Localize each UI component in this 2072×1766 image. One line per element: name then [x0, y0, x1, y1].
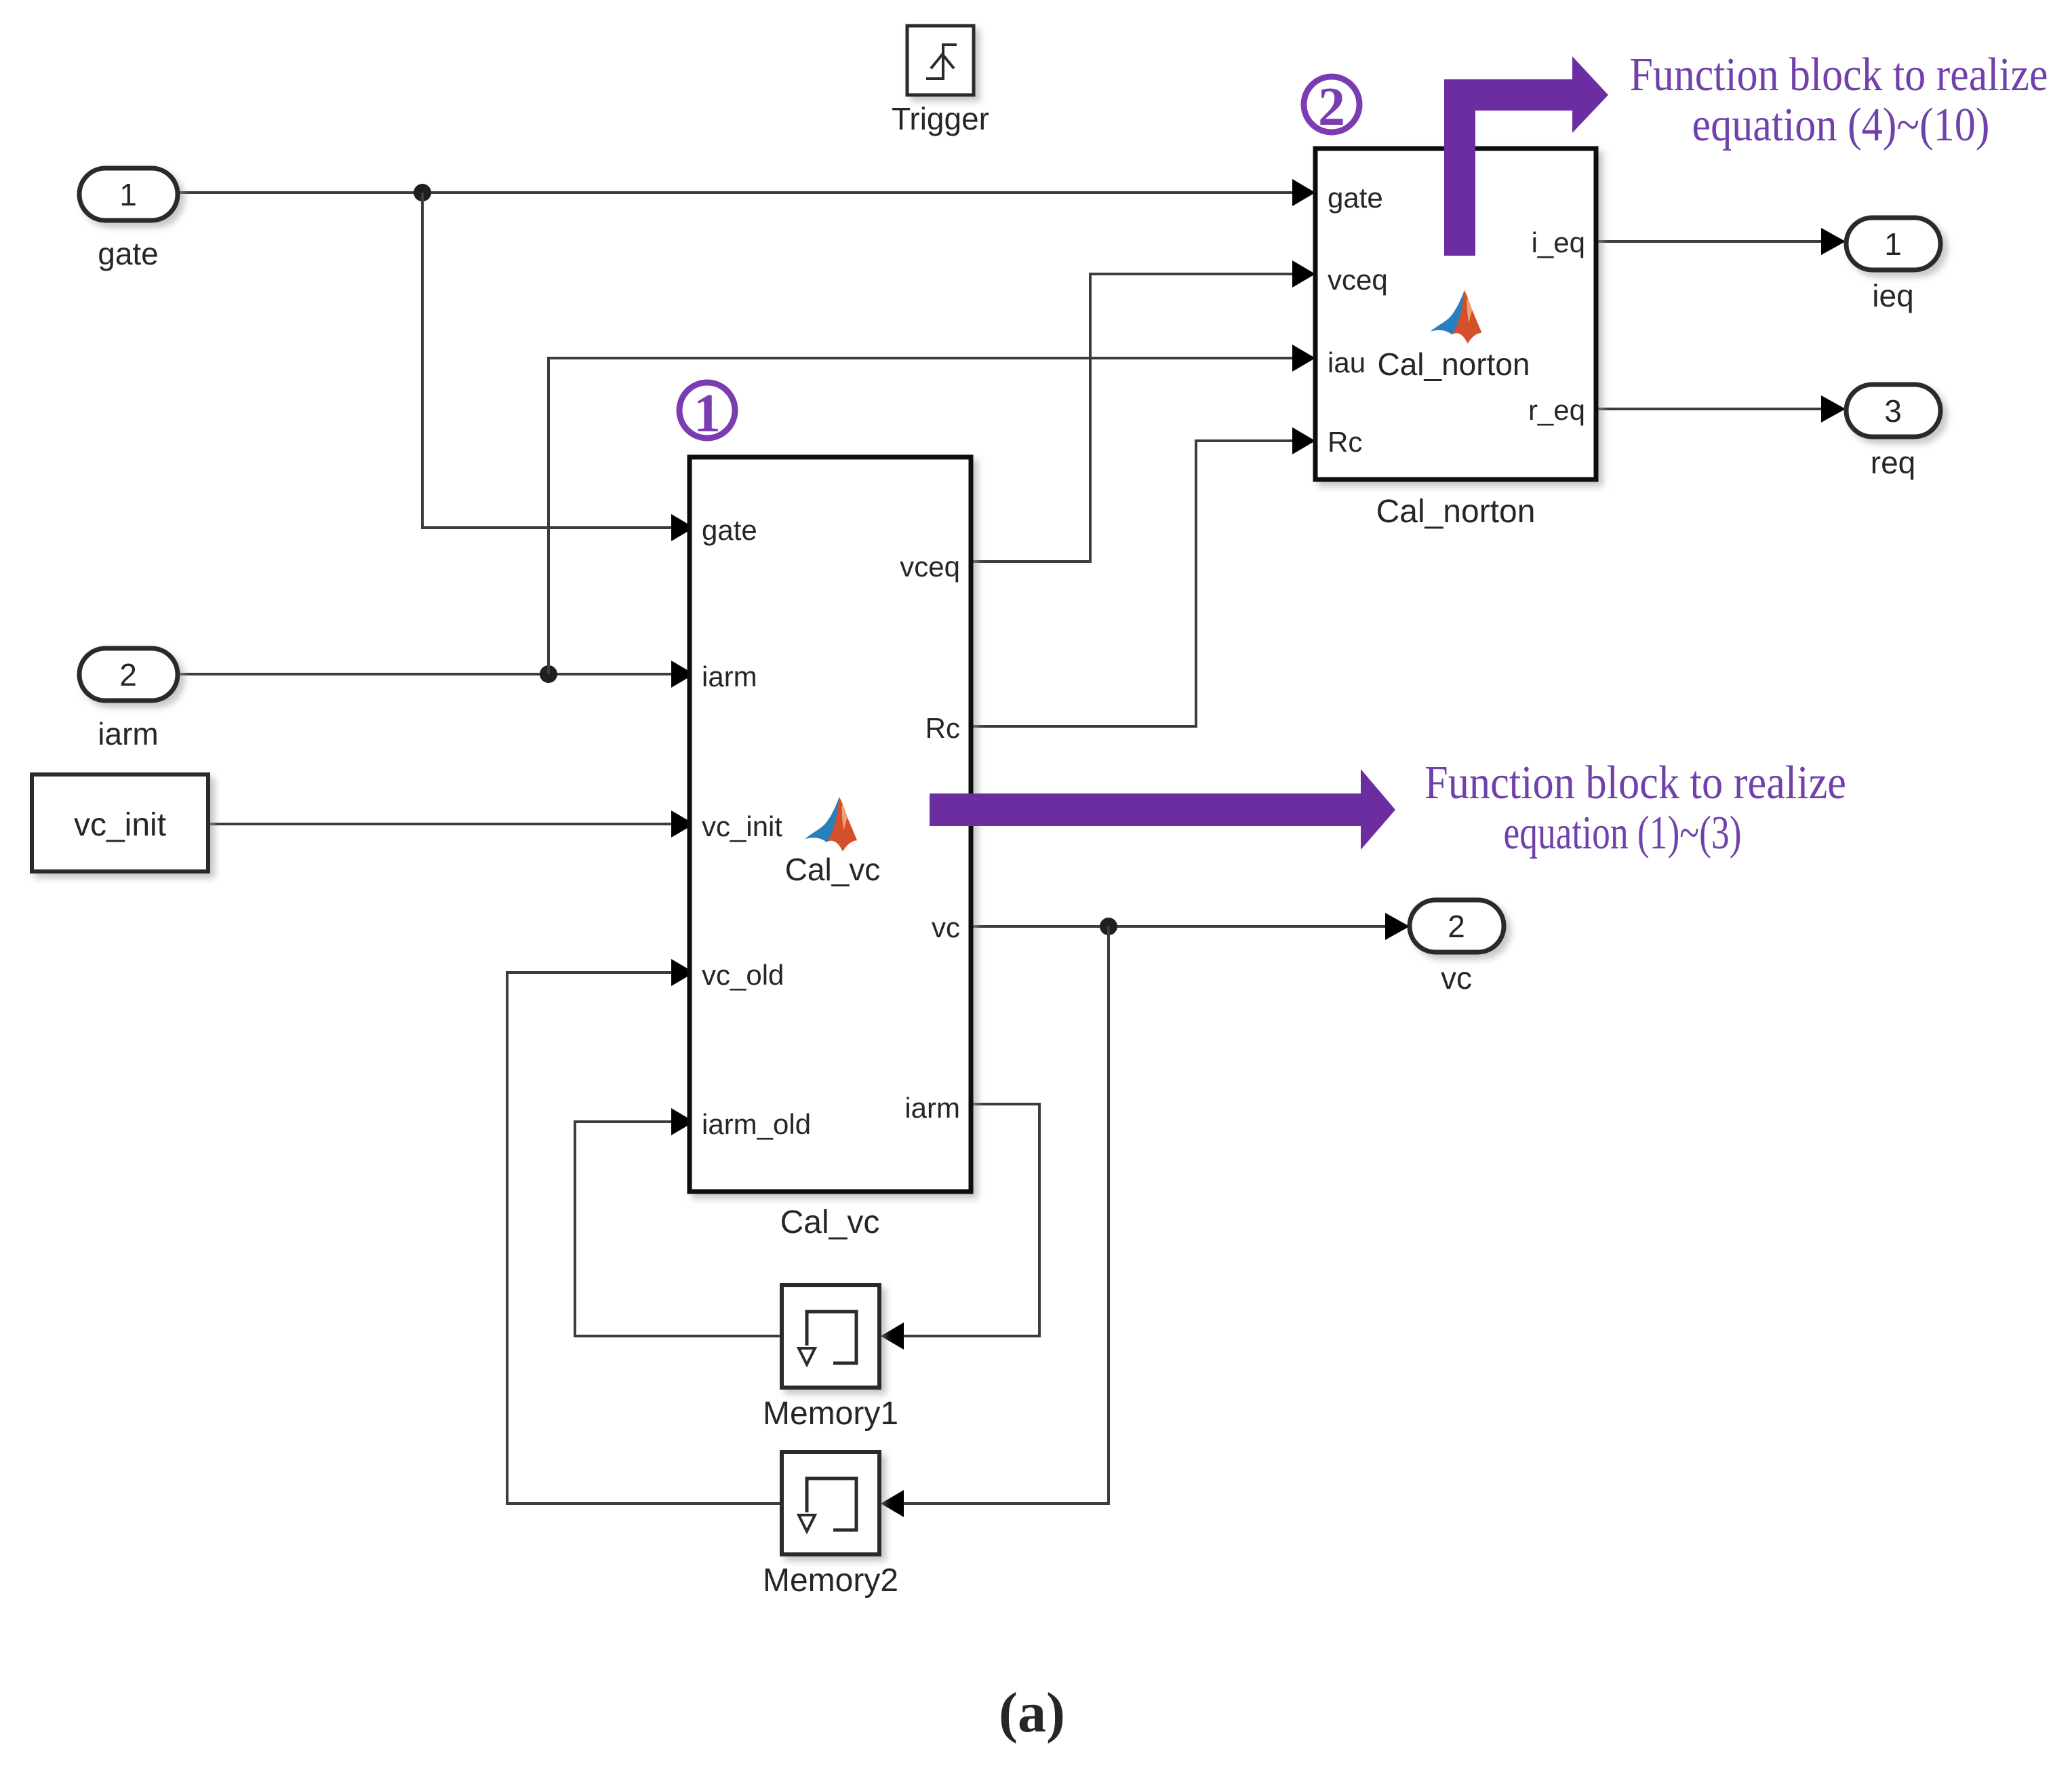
marker: circled 1 — [679, 382, 735, 444]
svg-text:ieq: ieq — [1872, 278, 1913, 313]
svg-text:vc_init: vc_init — [702, 810, 782, 842]
svg-text:gate: gate — [98, 236, 159, 271]
wire: i_eq to port — [1596, 240, 1824, 243]
arrowhead: into port vc — [1385, 913, 1410, 940]
node: vc junction — [1100, 918, 1117, 935]
wire: vc output — [971, 925, 1390, 928]
svg-text:Cal_vc: Cal_vc — [785, 852, 881, 887]
svg-text:Memory2: Memory2 — [763, 1563, 898, 1598]
svg-text:(a): (a) — [999, 1681, 1065, 1744]
arrowhead: into port req — [1821, 395, 1846, 423]
svg-text:vc: vc — [1441, 960, 1472, 996]
svg-text:2: 2 — [1448, 909, 1465, 944]
wire: vc down to Memory2 — [888, 926, 1109, 1504]
svg-text:1: 1 — [694, 384, 721, 444]
block: Cal_vc subsystem — [690, 457, 971, 1192]
svg-text:Memory1: Memory1 — [763, 1396, 898, 1432]
arrowhead: into Memory2 — [881, 1490, 904, 1517]
svg-text:iarm: iarm — [98, 716, 158, 751]
arrowhead: into Cal_norton vceq — [1292, 260, 1315, 288]
icon: MATLAB logo Cal_norton — [1431, 290, 1482, 344]
arrowhead: into Cal_vc iarm — [671, 661, 694, 688]
svg-text:Rc: Rc — [925, 712, 960, 744]
block: Memory2 — [782, 1452, 879, 1554]
svg-text:Cal_norton: Cal_norton — [1377, 347, 1530, 382]
svg-text:iarm: iarm — [702, 661, 757, 692]
arrowhead: into Cal_norton Rc — [1292, 427, 1315, 454]
marker: circled 2 — [1304, 77, 1359, 137]
block: Memory1 — [782, 1285, 879, 1388]
svg-text:2: 2 — [1318, 77, 1345, 137]
wire: r_eq to port — [1596, 408, 1824, 410]
svg-text:vc_init: vc_init — [74, 807, 166, 843]
svg-text:1: 1 — [1884, 227, 1902, 262]
arrowhead: into Cal_norton iau — [1292, 345, 1315, 372]
wire: Memory2 out to vc_old — [507, 973, 782, 1504]
svg-text:i_eq: i_eq — [1532, 227, 1585, 258]
wire: gate branch down to Cal_vc — [422, 193, 671, 528]
svg-text:gate: gate — [702, 514, 757, 546]
block: Trigger — [907, 26, 974, 95]
wire: Rc feedback — [971, 441, 1309, 726]
svg-text:Rc: Rc — [1328, 426, 1362, 458]
wire: vceq feedback — [971, 274, 1309, 562]
svg-text:3: 3 — [1884, 393, 1902, 429]
arrowhead: into Cal_vc gate — [671, 514, 694, 541]
svg-text:gate: gate — [1328, 182, 1383, 214]
node: gate junction — [414, 184, 431, 201]
svg-text:Function block to realize: Function block to realize — [1424, 757, 1846, 809]
wire: vc_init to Cal_vc — [208, 823, 671, 825]
annotation: purple text top — [1630, 49, 2048, 151]
svg-text:2: 2 — [119, 657, 137, 692]
annotation: purple elbow arrow — [1444, 56, 1608, 256]
svg-text:equation (4)~(10): equation (4)~(10) — [1692, 99, 1990, 151]
arrowhead: into Memory1 — [881, 1322, 904, 1350]
svg-text:iarm: iarm — [904, 1092, 960, 1124]
port: input 1 gate — [79, 168, 178, 220]
port: output 3 req — [1846, 385, 1940, 437]
node: iarm junction — [540, 665, 557, 683]
svg-text:vc_old: vc_old — [702, 959, 784, 991]
svg-text:Cal_norton: Cal_norton — [1376, 494, 1536, 530]
svg-text:Function block to realize: Function block to realize — [1630, 49, 2048, 101]
svg-text:req: req — [1871, 445, 1915, 480]
wire: iarm out down to Memory1 — [888, 1104, 1039, 1336]
svg-text:equation (1)~(3): equation (1)~(3) — [1504, 807, 1742, 859]
arrowhead: into Cal_vc iarm_old — [671, 1108, 694, 1135]
svg-text:r_eq: r_eq — [1528, 394, 1585, 426]
svg-text:vceq: vceq — [1328, 264, 1388, 296]
wire: Memory1 out to iarm_old — [575, 1122, 782, 1336]
annotation: purple straight arrow — [930, 769, 1395, 850]
port: output 2 vc — [1410, 900, 1504, 952]
arrowhead: into Cal_vc vc_init — [671, 810, 694, 838]
svg-text:1: 1 — [119, 177, 137, 212]
arrowhead: into Cal_vc vc_old — [671, 959, 694, 986]
port: output 1 ieq — [1846, 218, 1940, 270]
port: input 2 iarm — [79, 648, 178, 701]
wire: gate main horizontal — [178, 191, 1309, 194]
wire: iarm horizontal — [178, 673, 671, 675]
svg-text:iarm_old: iarm_old — [702, 1108, 811, 1140]
annotation: purple text middle — [1424, 757, 1846, 859]
svg-text:vceq: vceq — [900, 551, 960, 583]
arrowhead: into port ieq — [1821, 228, 1846, 255]
block: Cal_norton subsystem — [1315, 149, 1596, 479]
icon: MATLAB logo Cal_vc — [805, 797, 857, 852]
svg-text:iau: iau — [1328, 347, 1366, 378]
svg-text:Cal_vc: Cal_vc — [780, 1204, 880, 1240]
svg-text:Trigger: Trigger — [892, 101, 989, 136]
svg-text:vc: vc — [932, 911, 960, 943]
arrowhead: into Cal_norton gate — [1292, 179, 1315, 206]
wire: iarm branch up to iau — [549, 358, 1309, 674]
block: vc_init constant — [32, 774, 208, 871]
